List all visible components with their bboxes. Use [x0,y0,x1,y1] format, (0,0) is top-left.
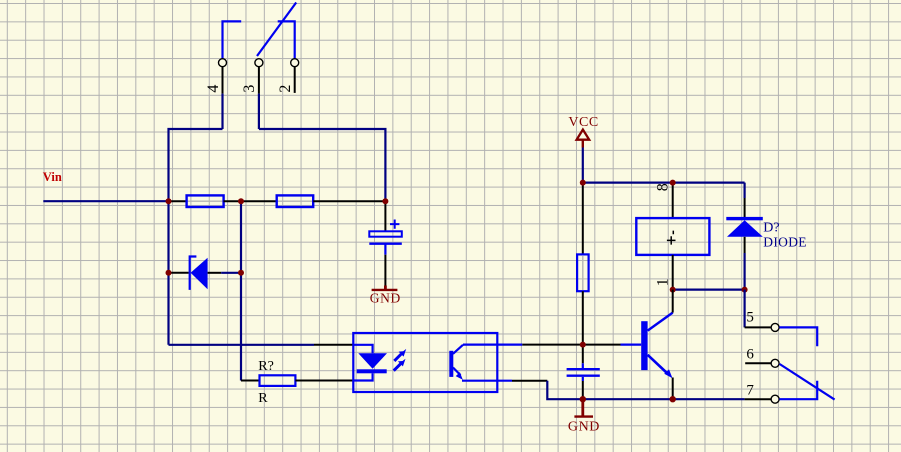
svg-text:DIODE: DIODE [763,235,807,250]
VCC stem [582,140,584,148]
junction [580,342,586,348]
svg-text:R?: R? [258,359,274,374]
junction [670,287,676,293]
pin lead black between R1 and R2 [224,200,277,202]
svg-text:R: R [258,391,268,406]
base pin blue [621,344,642,346]
diode triangle [727,220,763,237]
relay polarity plus [667,231,676,245]
wire: pin3 branch to right bus [259,129,386,201]
opto collector diagonal [453,345,463,354]
wire: emitter down to ground rail [547,381,744,400]
pin 1 lead [672,255,674,290]
wire: Vin horizontal [43,200,168,202]
base pin lead [583,344,621,346]
junction [238,198,244,204]
junction [742,287,748,293]
svg-text:4: 4 [205,85,222,93]
cap C2 bottom stub [582,377,584,381]
emitter diagonal [648,355,668,374]
switch contact from pin 7 [779,381,817,399]
VCC arrow [577,130,590,140]
wire: VCC rail horizontal [583,182,745,184]
pin 7 terminal circle [771,395,779,403]
resistor R2 body [277,195,314,207]
opto phototransistor base bar [449,351,453,377]
switch blade diagonal from pin 6 [780,364,835,400]
transistor base bar [641,321,647,370]
wire: right bus corner to R? [241,380,260,382]
ground bar 2 [574,415,593,417]
opto LED anode lead [353,345,372,354]
collector lead [672,290,674,313]
resistor R? body [260,375,296,386]
resistor R1 body [187,195,224,207]
cap C2 top lead [582,345,584,364]
pin 5 terminal circle [771,323,779,331]
cap C2 top stub [582,363,584,368]
diode cathode bar [726,217,763,220]
wire: switch contact from pin 2 [278,21,295,58]
zener triangle [191,258,208,289]
junction [238,270,244,276]
opto emitter pin lead [512,380,547,382]
opto collector pin lead to junction [522,344,582,346]
opto cathode pin lead [295,380,353,382]
wire diode to pin1 row [743,253,745,290]
ground symbol stem [384,286,387,290]
opto LED triangle [358,353,387,368]
pin 2 terminal circle [291,59,299,67]
resistor R3 inner lead [582,256,584,290]
cap C2 bottom lead [582,381,584,399]
svg-text:3: 3 [241,85,258,93]
cap C1 plus sign [390,220,399,229]
svg-text:GND: GND [370,290,401,305]
opto anode pin lead [314,344,353,346]
svg-text:2: 2 [277,85,294,93]
cap C2 top plate [567,368,600,370]
pin lead black R2 right [313,200,385,202]
opto LED cathode lead [353,373,372,380]
pin 7 lead [745,398,771,400]
junction [382,198,388,204]
svg-text:D?: D? [763,220,779,235]
cap C1 bottom stub [384,244,386,255]
resistor R3 bottom lead [582,291,584,344]
svg-text:GND: GND [568,419,600,434]
diode cathode lead [744,198,746,217]
junction [166,198,172,204]
pin 6 lead [745,362,771,364]
ground symbol stem 2 [581,399,584,416]
resistor R3 top lead [582,183,584,255]
pin 8 lead [672,183,674,219]
svg-text:Vin: Vin [43,170,62,184]
wire VCC down to rail [582,148,584,183]
switch contact from pin 5 [779,327,817,346]
diode anode lead [744,237,746,253]
junction [670,396,676,402]
pin 3 lead [258,67,260,94]
cap C1 lower lead [384,255,386,286]
switch blade (diagonal) [257,3,296,57]
junction [670,180,676,186]
junction [580,396,586,402]
pin 3 terminal circle [255,59,263,67]
ground bar [372,289,398,291]
svg-text:5: 5 [746,309,754,325]
pin 5 lead [745,326,771,328]
wire: diode row corner down to pin5 [743,290,745,328]
emitter arrowhead [664,369,672,378]
cap C1 top plate [369,231,402,236]
wire from pin 3 down [258,94,260,129]
photon arrow 2 [394,364,401,371]
junction [580,180,586,186]
wire: left bus down [167,201,169,345]
wire: pin1 row [673,289,745,291]
pin 4 terminal circle [219,59,227,67]
wire from pin 4 down [221,94,223,129]
cap C2 bottom plate [567,375,600,377]
svg-text:6: 6 [746,346,754,362]
svg-text:VCC: VCC [568,115,598,130]
wire zener to right bus [221,272,241,274]
wire: left bus to opto anode [169,344,315,346]
opto emitter diagonal [453,368,461,376]
opto emitter wire out [462,380,512,382]
resistor R3 body (vertical) [577,254,589,291]
opto LED cathode bar [357,369,387,373]
wire: switch contact from pin 4 [223,21,242,58]
svg-text:8: 8 [654,183,671,191]
zener cathode bar [189,256,197,290]
svg-text:7: 7 [746,383,754,399]
opto emitter arrowhead [456,372,463,380]
emitter lead [672,378,674,400]
pin lead black R1 left [169,200,187,202]
relay body box [636,218,709,255]
opto collector wire out [463,344,522,346]
collector diagonal [648,313,673,331]
zener right lead [208,272,222,274]
wire VCC rail corner down [743,183,745,198]
cap C1 bottom plate [369,242,402,244]
wire: pin4 branch to left bus [169,129,223,201]
pin 6 terminal circle [771,359,779,367]
wire: right bus down [240,201,242,380]
svg-text:1: 1 [654,278,671,286]
junction [166,270,172,276]
resistor R1 inner lead [187,200,224,202]
resistor R2 inner lead [277,200,314,202]
pin 4 lead [222,67,224,94]
cap C1 top lead [384,201,386,231]
opto body box [353,333,497,392]
pin 2 lead [294,67,296,93]
photon arrow 1 [394,354,401,361]
zener anode lead [171,272,189,274]
